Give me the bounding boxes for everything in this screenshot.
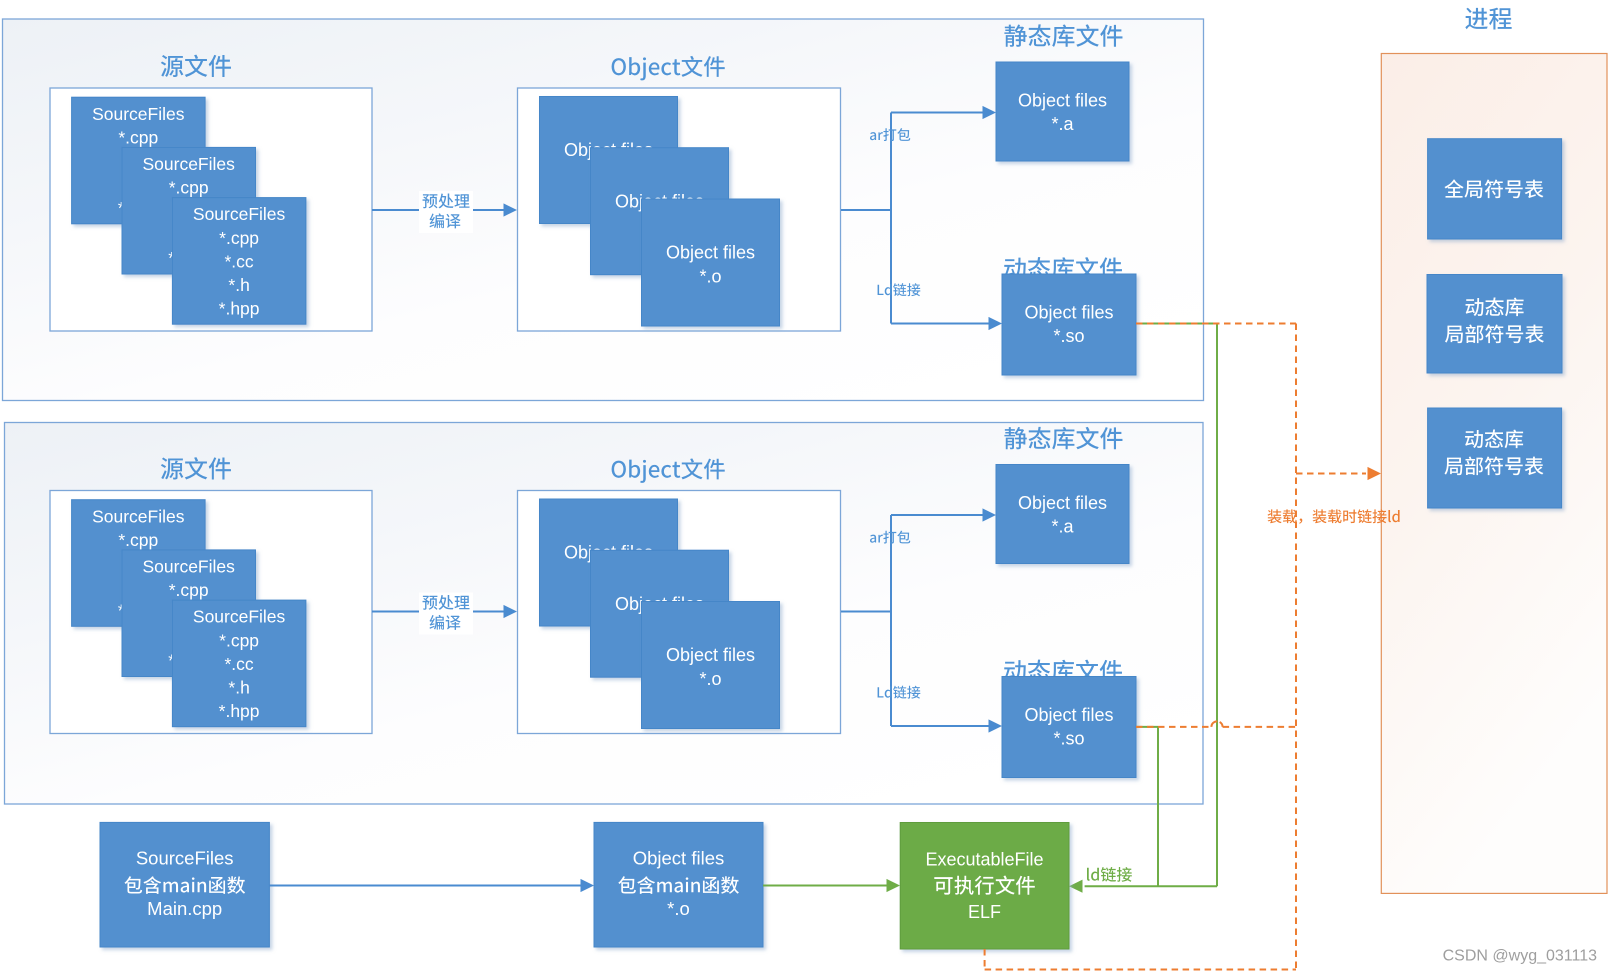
svg-text:*.cpp: *.cpp (169, 178, 209, 198)
svg-text:*.h: *.h (228, 677, 249, 697)
svg-text:ExecutableFile: ExecutableFile (925, 850, 1043, 870)
svg-text:Object files: Object files (633, 848, 725, 869)
svg-text:*.cpp: *.cpp (219, 228, 259, 248)
svg-text:*.o: *.o (699, 267, 721, 287)
svg-text:*.o: *.o (667, 898, 690, 919)
svg-text:CSDN @wyg_031113: CSDN @wyg_031113 (1443, 948, 1597, 965)
svg-text:*.cpp: *.cpp (219, 630, 259, 650)
svg-text:SourceFiles: SourceFiles (142, 154, 235, 174)
svg-text:Object files: Object files (1024, 705, 1113, 725)
svg-text:*.cpp: *.cpp (118, 530, 158, 550)
svg-text:SourceFiles: SourceFiles (193, 607, 286, 627)
svg-text:*.o: *.o (699, 669, 721, 689)
svg-text:SourceFiles: SourceFiles (92, 506, 185, 526)
svg-text:*.h: *.h (228, 275, 249, 295)
svg-text:SourceFiles: SourceFiles (92, 104, 185, 124)
svg-text:*.hpp: *.hpp (219, 298, 260, 318)
svg-text:*.hpp: *.hpp (219, 701, 260, 721)
svg-text:*.so: *.so (1053, 326, 1084, 346)
svg-text:*.a: *.a (1051, 114, 1074, 134)
svg-text:*.cpp: *.cpp (169, 580, 209, 600)
svg-text:SourceFiles: SourceFiles (193, 204, 286, 224)
svg-text:*.so: *.so (1053, 729, 1084, 749)
svg-text:Object files: Object files (666, 645, 755, 665)
svg-text:*.cpp: *.cpp (118, 127, 158, 147)
svg-text:*.a: *.a (1051, 517, 1074, 537)
svg-text:*.cc: *.cc (225, 251, 254, 271)
svg-text:SourceFiles: SourceFiles (136, 848, 234, 869)
svg-text:Object files: Object files (1018, 91, 1107, 111)
svg-text:Object files: Object files (1018, 493, 1107, 513)
svg-text:*.cc: *.cc (225, 654, 254, 674)
svg-text:Object files: Object files (666, 243, 755, 263)
svg-text:SourceFiles: SourceFiles (142, 557, 235, 577)
svg-text:Main.cpp: Main.cpp (147, 898, 222, 919)
svg-text:ELF: ELF (968, 902, 1001, 922)
svg-text:Object files: Object files (1024, 303, 1113, 323)
